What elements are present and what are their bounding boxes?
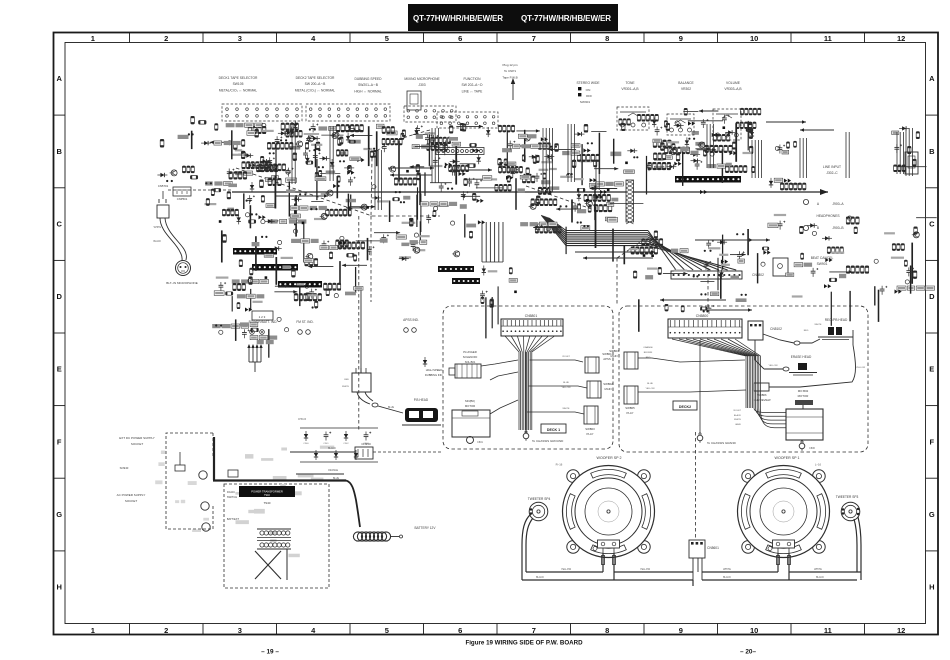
svg-text:C801: C801 — [477, 441, 483, 444]
svg-text:BLACK: BLACK — [328, 447, 336, 450]
svg-text:H: H — [929, 583, 934, 592]
svg-text:SOCKET: SOCKET — [125, 499, 138, 503]
svg-text:A: A — [929, 74, 935, 83]
svg-text:FM ST. IND.: FM ST. IND. — [296, 320, 313, 324]
svg-text:5: 5 — [385, 34, 389, 43]
svg-text:BLUE: BLUE — [388, 407, 394, 409]
svg-text:RED: RED — [344, 379, 349, 381]
svg-text:CUE/REVIEW: CUE/REVIEW — [753, 398, 770, 402]
svg-text:C: C — [929, 220, 935, 229]
svg-text:9: 9 — [679, 626, 683, 635]
svg-text:SWB06: SWB06 — [757, 393, 767, 397]
svg-text:YELLOW: YELLOW — [640, 568, 651, 571]
svg-text:J900–A: J900–A — [832, 202, 844, 206]
svg-text:L–16: L–16 — [815, 463, 822, 467]
svg-text:SW301: SW301 — [580, 100, 590, 104]
svg-text:HEADPHONES: HEADPHONES — [816, 214, 840, 218]
svg-text:5: 5 — [385, 626, 389, 635]
svg-text:BLACK: BLACK — [153, 240, 161, 243]
svg-text:WHITE: WHITE — [154, 227, 162, 229]
svg-text:ON: ON — [586, 88, 591, 92]
svg-text:DECK1 TAPE SELECTOR: DECK1 TAPE SELECTOR — [219, 76, 258, 80]
svg-text:OFF: OFF — [586, 94, 592, 98]
svg-text:– 20–: – 20– — [740, 649, 756, 656]
svg-text:F: F — [57, 437, 62, 446]
svg-text:1: 1 — [91, 34, 95, 43]
svg-text:CHB-06: CHB-06 — [298, 419, 307, 421]
svg-text:SW 202–A∼D: SW 202–A∼D — [462, 83, 484, 87]
svg-text:EXT DC POWER SUPPLY: EXT DC POWER SUPPLY — [119, 436, 155, 440]
svg-text:RED: RED — [646, 357, 651, 359]
svg-text:T940: T940 — [264, 501, 271, 505]
svg-text:C941: C941 — [323, 443, 329, 445]
svg-text:SW201–A∼B: SW201–A∼B — [358, 83, 379, 87]
svg-text:CN5102: CN5102 — [770, 327, 782, 331]
svg-text:DUBBING IND.: DUBBING IND. — [425, 373, 444, 377]
svg-text:WHITE: WHITE — [814, 568, 822, 571]
svg-text:1: 1 — [91, 626, 95, 635]
svg-text:WOOFER SP 1: WOOFER SP 1 — [775, 456, 800, 460]
svg-text:Figure 19 WIRING SIDE OF P.W.: Figure 19 WIRING SIDE OF P.W. BOARD — [465, 640, 583, 647]
svg-text:DECK2: DECK2 — [679, 405, 691, 409]
svg-text:8: 8 — [605, 626, 609, 635]
svg-text:C940: C940 — [303, 443, 309, 445]
svg-text:MO B02: MO B02 — [798, 389, 809, 393]
svg-text:ORANGE: ORANGE — [643, 346, 653, 349]
svg-text:SWB03: SWB03 — [585, 427, 595, 431]
svg-text:BLUE: BLUE — [333, 478, 339, 480]
svg-text:CN5801: CN5801 — [525, 314, 538, 318]
svg-text:CN5601: CN5601 — [707, 546, 719, 550]
svg-text:WHITE: WHITE — [723, 568, 731, 571]
svg-text:SWB04: SWB04 — [609, 349, 619, 353]
svg-text:DECK 1: DECK 1 — [547, 428, 560, 432]
svg-text:T940: T940 — [264, 494, 270, 497]
svg-text:DC/AC: DC/AC — [227, 490, 235, 494]
svg-text:QT-77HW/HR/HB/EW/ER: QT-77HW/HR/HB/EW/ER — [413, 14, 503, 23]
svg-text:C806: C806 — [809, 447, 815, 450]
svg-text:B: B — [56, 147, 62, 156]
svg-text:SOLENOID: SOLENOID — [463, 355, 477, 359]
svg-text:LINE INPUT: LINE INPUT — [823, 165, 841, 169]
svg-text:HIGH ↔ NORMAL: HIGH ↔ NORMAL — [354, 89, 382, 93]
svg-text:VOLUME: VOLUME — [726, 81, 741, 85]
svg-text:J303: J303 — [418, 83, 425, 87]
svg-text:SWB02: SWB02 — [603, 382, 613, 386]
svg-text:J900–B: J900–B — [832, 226, 844, 230]
svg-text:METAL (CrO₂) ↔ NORMAL: METAL (CrO₂) ↔ NORMAL — [295, 88, 335, 92]
svg-text:BLACK: BLACK — [816, 576, 824, 579]
svg-text:VR302: VR302 — [681, 87, 691, 91]
svg-text:BLUE: BLUE — [563, 382, 569, 384]
svg-text:11: 11 — [824, 34, 832, 43]
svg-text:CN5701: CN5701 — [158, 184, 169, 188]
svg-text:PLUNGER: PLUNGER — [463, 350, 477, 354]
svg-text:C942: C942 — [343, 443, 349, 445]
svg-text:H: H — [56, 583, 61, 592]
svg-text:TWEETER SP3: TWEETER SP3 — [836, 495, 859, 499]
svg-text:Plug 12 pin: Plug 12 pin — [502, 63, 517, 67]
svg-text:MOTOR: MOTOR — [465, 404, 475, 408]
svg-text:CNP501: CNP501 — [177, 197, 188, 201]
svg-text:2: 2 — [164, 34, 168, 43]
svg-text:SO940: SO940 — [120, 466, 129, 470]
svg-text:D: D — [56, 292, 62, 301]
svg-text:6: 6 — [458, 34, 462, 43]
svg-text:SW901: SW901 — [817, 262, 828, 266]
svg-text:VIOLET: VIOLET — [733, 410, 741, 412]
svg-text:P.B HEAD: P.B HEAD — [414, 398, 429, 402]
svg-text:POWER TRANSFORMER: POWER TRANSFORMER — [251, 489, 283, 493]
svg-text:APSS IND.: APSS IND. — [403, 318, 419, 322]
svg-text:3: 3 — [238, 626, 242, 635]
svg-text:VR301–A,B: VR301–A,B — [621, 87, 639, 91]
svg-text:1 2 3: 1 2 3 — [259, 315, 266, 319]
svg-text:C: C — [56, 220, 62, 229]
svg-text:BROWN: BROWN — [644, 352, 653, 354]
svg-text:YELLOW: YELLOW — [645, 388, 655, 390]
svg-text:YELLOW: YELLOW — [768, 365, 778, 367]
svg-text:VR303–A,B: VR303–A,B — [724, 87, 742, 91]
svg-text:MIXING MICROPHONE: MIXING MICROPHONE — [404, 77, 440, 81]
svg-text:YELLOW: YELLOW — [561, 387, 571, 389]
svg-text:BATTERY 12V: BATTERY 12V — [415, 526, 437, 530]
svg-text:SWB05: SWB05 — [625, 406, 635, 410]
svg-text:WHITE: WHITE — [342, 386, 350, 388]
svg-text:TWEETER SP4: TWEETER SP4 — [528, 497, 551, 501]
svg-text:WHITE: WHITE — [562, 408, 570, 410]
svg-text:12: 12 — [897, 34, 905, 43]
svg-text:PLAY: PLAY — [627, 411, 634, 415]
svg-text:HIGH SPEED: HIGH SPEED — [426, 368, 443, 372]
svg-text:WHITE: WHITE — [734, 419, 742, 421]
svg-text:BLACK: BLACK — [723, 576, 731, 579]
svg-text:SWITCH: SWITCH — [227, 495, 237, 499]
svg-text:J302–C: J302–C — [826, 171, 838, 175]
svg-text:6: 6 — [458, 626, 462, 635]
svg-text:WHITE: WHITE — [814, 324, 822, 326]
svg-text:YELLOW: YELLOW — [561, 568, 572, 571]
svg-text:MO(B0): MO(B0) — [465, 399, 475, 403]
svg-text:DECK2 TAPE SELECTOR: DECK2 TAPE SELECTOR — [296, 76, 335, 80]
svg-text:A: A — [56, 74, 62, 83]
svg-text:To CHASSIS GRAND: To CHASSIS GRAND — [707, 441, 737, 445]
svg-text:DUBBING SPEED: DUBBING SPEED — [354, 77, 382, 81]
svg-text:METAL/CrO₂ ↔ NORMAL: METAL/CrO₂ ↔ NORMAL — [219, 88, 257, 92]
svg-text:LINE ↔ TAPE: LINE ↔ TAPE — [462, 89, 484, 93]
svg-text:WOOFER SP 2: WOOFER SP 2 — [597, 456, 622, 460]
svg-text:ORANGE: ORANGE — [328, 469, 338, 472]
svg-text:AC POWER SUPPLY: AC POWER SUPPLY — [117, 493, 146, 497]
svg-text:2: 2 — [164, 626, 168, 635]
svg-text:E: E — [57, 365, 62, 374]
svg-text:G: G — [56, 510, 62, 519]
svg-text:11: 11 — [824, 626, 832, 635]
svg-text:VIOLET: VIOLET — [562, 356, 570, 358]
svg-text:D: D — [929, 292, 935, 301]
svg-text:GRAY: GRAY — [735, 423, 742, 426]
svg-text:SW 200–A∼B: SW 200–A∼B — [305, 82, 327, 86]
svg-text:12: 12 — [897, 626, 905, 635]
svg-text:– 19 –: – 19 – — [261, 649, 279, 656]
svg-text:SOCKET: SOCKET — [131, 442, 144, 446]
svg-text:MOTOR: MOTOR — [798, 394, 809, 398]
svg-text:3: 3 — [238, 34, 242, 43]
svg-text:SW105: SW105 — [233, 82, 244, 86]
svg-text:R–16: R–16 — [556, 463, 563, 467]
svg-text:9: 9 — [679, 34, 683, 43]
svg-text:FUNCTION: FUNCTION — [463, 77, 481, 81]
svg-text:STEREO WIDE: STEREO WIDE — [576, 81, 600, 85]
svg-text:G: G — [929, 510, 935, 519]
svg-text:BALANCE: BALANCE — [678, 81, 694, 85]
svg-text:REC./PB HEAD: REC./PB HEAD — [825, 318, 848, 322]
svg-text:BLACK: BLACK — [536, 576, 544, 579]
svg-text:7: 7 — [532, 34, 536, 43]
svg-text:B: B — [929, 147, 935, 156]
svg-text:C943: C943 — [363, 443, 369, 445]
svg-text:To CNP1: To CNP1 — [504, 69, 516, 73]
svg-text:E: E — [929, 365, 934, 374]
svg-text:YELLOW: YELLOW — [856, 367, 866, 369]
svg-text:7: 7 — [532, 626, 536, 635]
svg-text:SOL.B01: SOL.B01 — [465, 360, 476, 364]
svg-text:MAIN: MAIN — [611, 354, 618, 358]
svg-text:ERASE HEAD: ERASE HEAD — [791, 355, 812, 359]
svg-text:10: 10 — [750, 34, 758, 43]
svg-text:8: 8 — [605, 34, 609, 43]
svg-text:RED: RED — [804, 330, 809, 332]
svg-text:BLUE: BLUE — [647, 383, 653, 385]
svg-text:BLACK: BLACK — [734, 414, 742, 417]
svg-text:To CHASSIS GROUND: To CHASSIS GROUND — [532, 439, 564, 443]
svg-text:TONE: TONE — [625, 81, 635, 85]
svg-text:BLT–IN MICROPHONE: BLT–IN MICROPHONE — [166, 281, 197, 285]
svg-text:CN5800: CN5800 — [696, 314, 709, 318]
svg-text:PLAY: PLAY — [587, 432, 594, 436]
svg-text:Tape P.W.B: Tape P.W.B — [502, 75, 517, 79]
svg-text:F: F — [930, 437, 935, 446]
svg-text:10: 10 — [750, 626, 758, 635]
svg-text:QT-77HW/HR/HB/EW/ER: QT-77HW/HR/HB/EW/ER — [521, 14, 611, 23]
svg-text:MAIN: MAIN — [605, 387, 612, 391]
